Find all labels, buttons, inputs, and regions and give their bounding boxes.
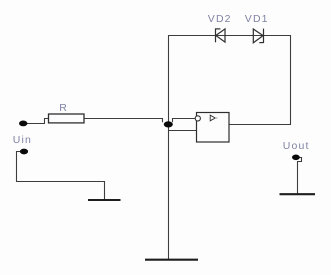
wire Uout terminal hook down to ground bbox=[296, 158, 302, 194]
op-amp amplifier triangle bbox=[210, 115, 217, 121]
wire resistor to junction bbox=[84, 119, 163, 123]
terminal dot Uin bbox=[20, 149, 28, 155]
terminal dot input to R bbox=[19, 121, 27, 127]
wire top feedback vertical bbox=[168, 36, 170, 122]
wire junction to inverting input bbox=[173, 119, 196, 123]
svg-text:Uin: Uin bbox=[13, 134, 32, 146]
resistor R bbox=[49, 114, 85, 123]
wire right vertical from diodes to output bbox=[290, 35, 292, 125]
wire Uin terminal to ground bbox=[17, 152, 105, 200]
wire top feedback horizontal bbox=[168, 35, 291, 37]
wire junction down to ground bbox=[168, 127, 170, 260]
junction node dot bbox=[164, 121, 173, 127]
diode VD1 (pointing right) bbox=[253, 29, 263, 43]
diode VD2 (pointing left) bbox=[216, 28, 226, 42]
svg-text:VD1: VD1 bbox=[245, 13, 269, 25]
svg-text:VD2: VD2 bbox=[208, 13, 232, 25]
ground under Uout bbox=[280, 193, 316, 195]
wire op-amp output bbox=[229, 124, 291, 126]
svg-text:Uout: Uout bbox=[283, 140, 310, 152]
wire input dot to resistor bbox=[27, 119, 49, 124]
terminal dot Uout bbox=[292, 155, 300, 161]
op-amp U1 body bbox=[197, 113, 230, 143]
op-amp inverting input circle bbox=[195, 116, 200, 121]
wire branch to non-inverting input bbox=[169, 130, 197, 132]
ground under Uin bbox=[88, 199, 121, 201]
ground bottom center bbox=[145, 259, 198, 261]
svg-text:R: R bbox=[59, 102, 68, 114]
